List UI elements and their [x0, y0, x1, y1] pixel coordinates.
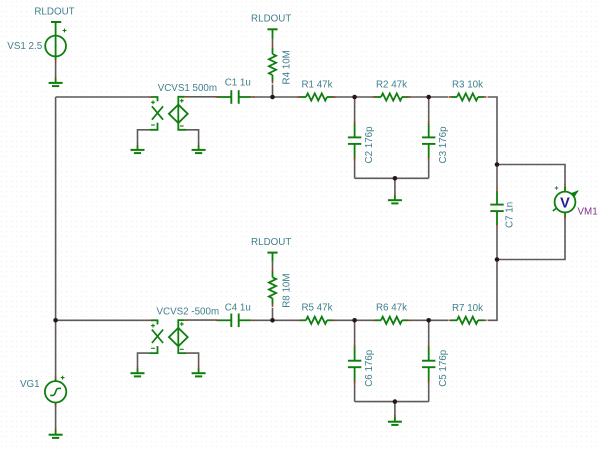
svg-text:RLDOUT: RLDOUT: [251, 237, 291, 248]
wire: node D to R7: [429, 319, 448, 321]
wire: C1 to node RA: [253, 96, 273, 98]
svg-text:R5 47k: R5 47k: [301, 303, 332, 314]
node OUTN junction: [495, 257, 500, 262]
wire: VCVS2 input minus to ground: [138, 353, 150, 367]
controlled source VCVS1 input port: [148, 96, 151, 98]
wire: gnd rail stub: [394, 178, 396, 194]
voltage source VS1: [55, 22, 57, 60]
wire: VCVS1 out to C1: [188, 96, 219, 98]
wire: left rail vertical: [55, 97, 57, 320]
wire: VCVS2 diamond minus to ground: [186, 353, 199, 367]
svg-text:R8 10M: R8 10M: [282, 273, 293, 307]
wire: C7 to node OUTN: [496, 227, 498, 260]
resistor R6: [373, 319, 376, 321]
svg-text:C4 1u: C4 1u: [225, 303, 251, 314]
node C junction: [352, 318, 357, 323]
resistor R7: [449, 319, 452, 321]
node RB junction: [270, 318, 275, 323]
jumper tag RLDOUT at R4: [267, 28, 277, 30]
wire: node D to C5: [428, 320, 430, 348]
svg-text:C3 176p: C3 176p: [438, 126, 449, 164]
wire: node B to C3: [428, 97, 430, 125]
wire: VCVS2 out to C4: [188, 319, 219, 321]
ground under VCVS2 input: [137, 367, 139, 370]
svg-text:C6 176p: C6 176p: [364, 349, 375, 387]
node D junction: [426, 318, 431, 323]
wire: R4 to node RA: [272, 85, 274, 98]
controlled source VCVS2 input port: [148, 319, 151, 321]
wire: R2 to node B: [409, 96, 429, 98]
wire: node OUTP to C7: [496, 165, 498, 189]
voltmeter VM1: [564, 184, 566, 187]
ground under VCVS1 diamond: [198, 143, 200, 146]
wire: voltmeter bottom to node OUTN: [497, 220, 565, 260]
wire: VG1 top feed: [55, 320, 57, 379]
wire: VCVS1 diamond minus to ground: [186, 130, 199, 144]
wire: C5 to gnd rail: [428, 381, 430, 402]
svg-text:RLDOUT: RLDOUT: [251, 14, 291, 25]
wire: R5 to node C: [333, 319, 355, 321]
resistor R8: [272, 269, 274, 272]
resistor R3: [449, 96, 452, 98]
svg-text:C7 1n: C7 1n: [504, 202, 515, 228]
wire: gnd rail stub bottom: [394, 402, 396, 417]
node RA junction: [270, 95, 275, 100]
wire: R3 to output corner down: [488, 97, 498, 165]
ground under VCVS2 diamond: [198, 367, 200, 370]
svg-text:R3 10k: R3 10k: [452, 80, 483, 91]
ground under VCVS1 input: [137, 143, 139, 146]
ground under VG1: [55, 428, 57, 431]
svg-text:VCVS2 -500m: VCVS2 -500m: [157, 307, 220, 318]
svg-text:C1 1u: C1 1u: [225, 77, 251, 88]
wire: node C to C6: [354, 320, 356, 348]
svg-text:R6 47k: R6 47k: [376, 303, 407, 314]
capacitor C1: [216, 96, 219, 98]
wire: VCVS1 input minus to ground: [138, 130, 150, 144]
ground under C2/C3: [394, 194, 396, 197]
ground under VS1: [55, 76, 57, 79]
wire: C3 to gnd rail: [428, 158, 430, 179]
svg-text:C5 176p: C5 176p: [438, 349, 449, 387]
capacitor C6: [354, 345, 356, 348]
svg-text:R2 47k: R2 47k: [376, 79, 407, 90]
wire: R1 to node A: [333, 96, 355, 98]
svg-text:R1 47k: R1 47k: [301, 79, 332, 90]
jumper tag RLDOUT at VS1: [51, 21, 61, 23]
svg-text:VG1: VG1: [20, 379, 40, 390]
node A junction: [352, 95, 357, 100]
wire: R8 jumper stub: [272, 262, 274, 270]
wire: R8 to node RB: [272, 308, 274, 321]
svg-text:R7 10k: R7 10k: [452, 303, 483, 314]
capacitor C3: [428, 121, 430, 124]
wire: node B to R3: [429, 96, 448, 98]
wire: node A to C2: [354, 97, 356, 125]
controlled source VCVS2 diamond: [169, 328, 188, 346]
node B junction: [426, 95, 431, 100]
resistor R4: [272, 46, 274, 49]
wire: VG1 to ground: [55, 405, 57, 429]
capacitor C4: [216, 319, 219, 321]
wire: R6 to node D: [409, 319, 429, 321]
svg-text:R4 10M: R4 10M: [282, 50, 293, 84]
node OUTP junction: [495, 162, 500, 167]
wire: node OUTN down to bottom row: [488, 260, 498, 321]
node GT junction: [393, 176, 398, 181]
capacitor C2: [354, 121, 356, 124]
svg-text:VCVS1 500m: VCVS1 500m: [158, 83, 217, 94]
svg-text:VM1: VM1: [578, 206, 598, 217]
node GB junction: [393, 399, 398, 404]
wire: node C to R6: [355, 319, 375, 321]
wire: C6/C5 ground rail: [355, 401, 429, 403]
wire: left rail horizontal top: [56, 96, 149, 98]
svg-text:RLDOUT: RLDOUT: [34, 6, 74, 17]
jumper tag RLDOUT at R8: [267, 252, 277, 254]
controlled source VCVS1 diamond: [169, 105, 188, 123]
node L junction: [53, 318, 58, 323]
wire: VS1 to ground: [55, 63, 57, 78]
wire: C4 to node RB: [253, 319, 273, 321]
resistor R5: [298, 319, 301, 321]
resistor R2: [373, 96, 376, 98]
wire: C2/C3 ground rail: [355, 177, 429, 179]
svg-text:C2 176p: C2 176p: [364, 126, 375, 164]
wire: bottom row left horizontal: [56, 319, 149, 321]
svg-text:V: V: [560, 195, 570, 211]
svg-text:VS1 2.5: VS1 2.5: [7, 41, 42, 52]
resistor R1: [298, 96, 301, 98]
ground under C6/C5: [394, 415, 396, 418]
wire: C6 to gnd rail: [354, 381, 356, 402]
wire: node RB to R5: [273, 319, 301, 321]
capacitor C5: [428, 345, 430, 348]
wire: node RA to R1: [273, 96, 301, 98]
wire: node OUTP to voltmeter branch: [497, 165, 565, 186]
capacitor C7: [496, 188, 498, 191]
wire: C2 to gnd rail: [354, 158, 356, 179]
wire: R4 jumper stub: [272, 39, 274, 47]
generator VG1: [55, 376, 57, 379]
wire: node A to R2: [355, 96, 375, 98]
